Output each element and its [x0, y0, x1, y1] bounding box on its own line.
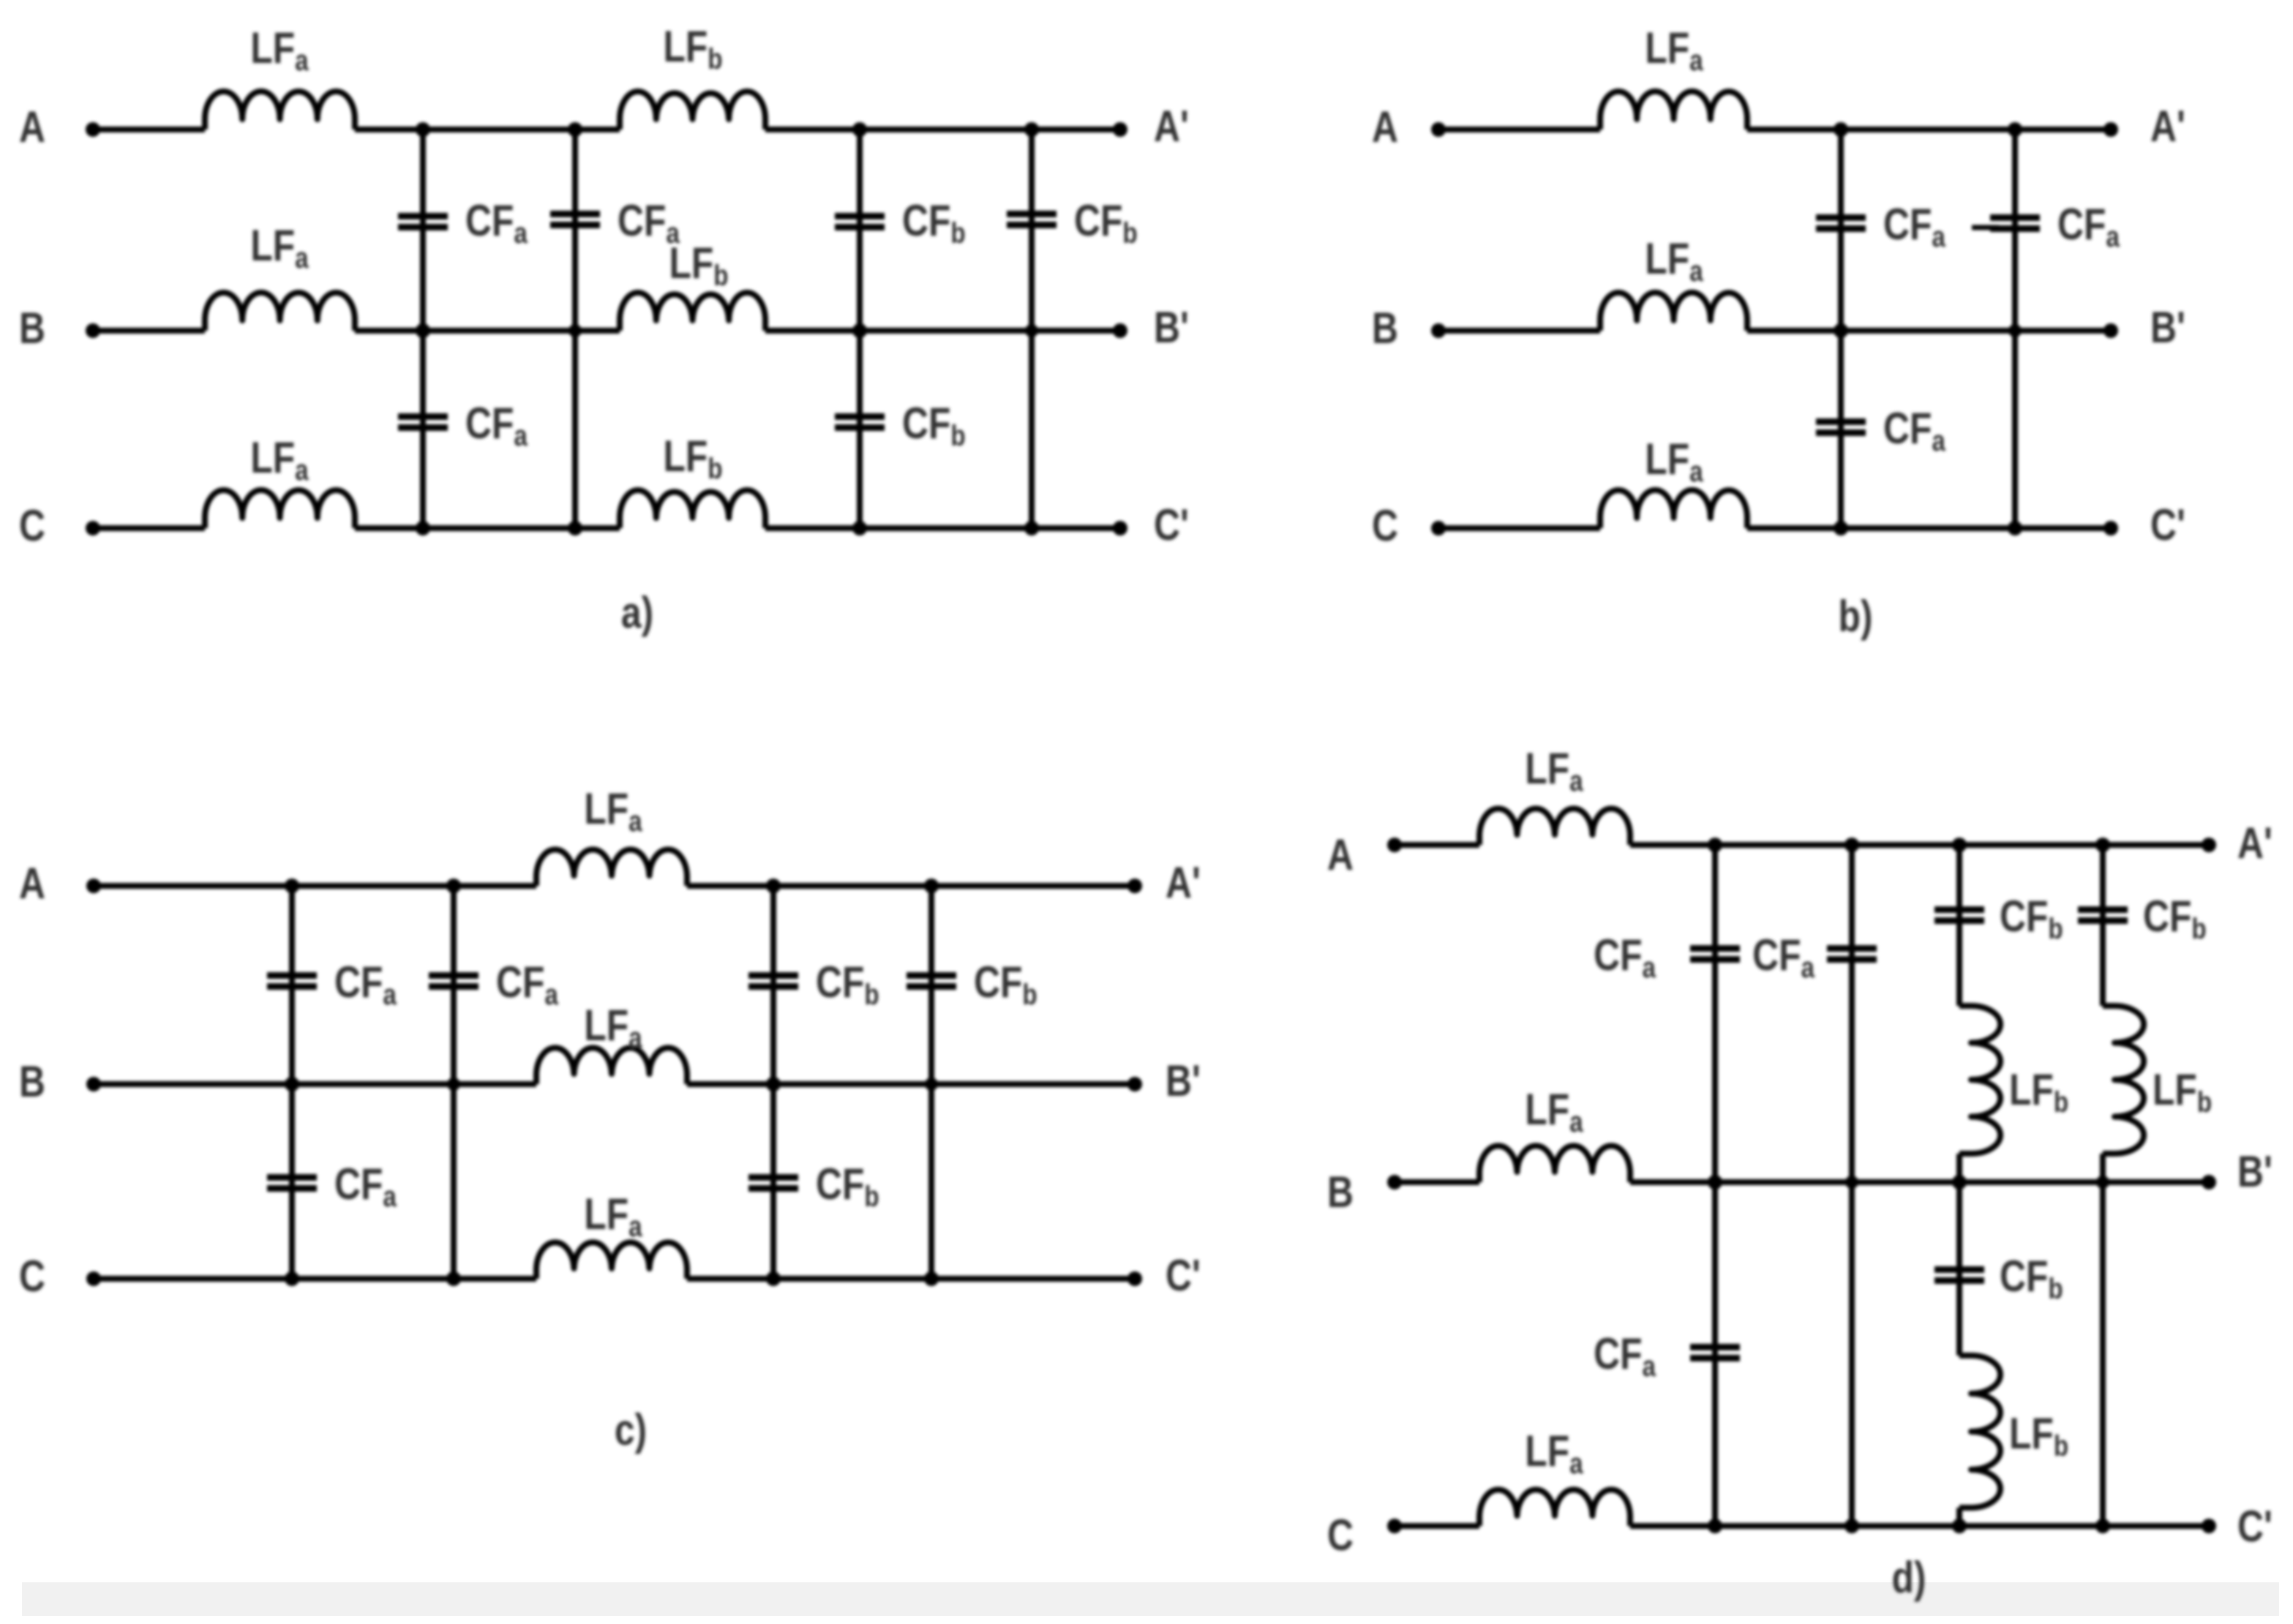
svg-text:C': C'	[1154, 500, 1189, 549]
svg-text:A': A'	[2150, 102, 2185, 151]
svg-text:B': B'	[1154, 303, 1189, 352]
svg-text:B: B	[1327, 1168, 1354, 1217]
svg-text:C': C'	[2237, 1502, 2273, 1551]
svg-text:b): b)	[1839, 592, 1873, 641]
svg-text:B: B	[1372, 304, 1398, 353]
svg-text:C: C	[19, 501, 45, 550]
svg-text:c): c)	[615, 1405, 647, 1454]
svg-text:A': A'	[1166, 858, 1201, 907]
svg-text:B': B'	[2150, 303, 2185, 352]
svg-text:a): a)	[621, 588, 653, 637]
svg-text:A: A	[19, 859, 45, 908]
svg-text:B': B'	[1166, 1056, 1201, 1105]
svg-text:d): d)	[1892, 1553, 1926, 1602]
svg-text:C: C	[1327, 1511, 1354, 1560]
svg-text:C': C'	[2150, 500, 2185, 549]
svg-text:A: A	[19, 102, 45, 151]
svg-text:A: A	[1372, 102, 1398, 151]
svg-text:A': A'	[2237, 819, 2273, 868]
svg-text:C: C	[19, 1252, 45, 1301]
svg-text:B: B	[19, 304, 45, 353]
svg-text:B: B	[19, 1057, 45, 1106]
svg-text:A': A'	[1154, 102, 1189, 151]
svg-text:A: A	[1327, 830, 1354, 879]
svg-text:C': C'	[1166, 1251, 1201, 1300]
svg-text:C: C	[1372, 501, 1398, 550]
svg-text:B': B'	[2237, 1147, 2273, 1196]
